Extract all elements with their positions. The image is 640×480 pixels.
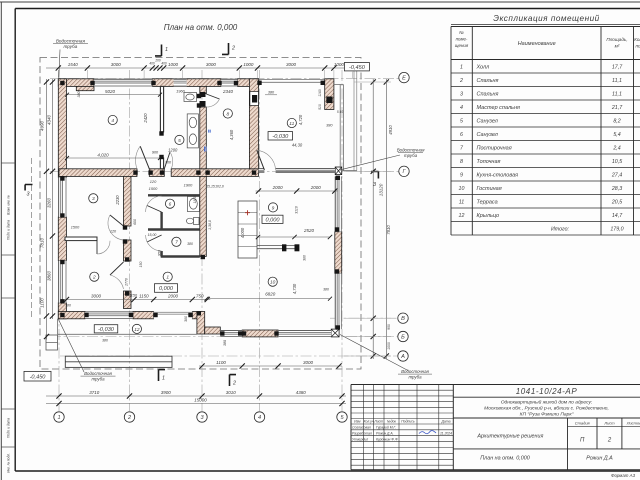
- svg-text:3000: 3000: [91, 294, 102, 299]
- svg-text:5020: 5020: [105, 89, 116, 94]
- window right wall lower: [335, 273, 342, 329]
- svg-text:Подпись: Подпись: [401, 420, 415, 424]
- svg-text:380: 380: [187, 242, 193, 246]
- wall axis 3 upper (room5/room8): [200, 86, 207, 168]
- svg-text:2770: 2770: [125, 278, 129, 287]
- svg-text:950: 950: [158, 250, 162, 256]
- svg-text:по: по: [635, 44, 640, 49]
- svg-text:380: 380: [326, 124, 333, 128]
- axis circles Е Г В Б А: [398, 72, 409, 361]
- svg-text:3010: 3010: [226, 390, 237, 395]
- svg-text:Терраса: Терраса: [477, 200, 498, 206]
- svg-text:4340: 4340: [47, 114, 52, 125]
- exterior wall bottom B, segment 3: [192, 312, 197, 319]
- svg-text:3000: 3000: [303, 360, 314, 365]
- svg-text:4,020: 4,020: [97, 153, 109, 158]
- door room4 at Г wall: [136, 146, 150, 169]
- corner post axis 5/Б: [331, 329, 339, 337]
- svg-text:1160: 1160: [318, 89, 322, 96]
- svg-text:1200: 1200: [168, 148, 178, 153]
- svg-text:20,5: 20,5: [611, 200, 622, 206]
- svg-text:Дата: Дата: [441, 420, 451, 424]
- svg-text:11,1: 11,1: [612, 78, 622, 84]
- svg-text:-0,450: -0,450: [349, 65, 366, 71]
- svg-text:9: 9: [272, 205, 275, 211]
- svg-text:труба: труба: [404, 153, 418, 158]
- svg-text:380: 380: [184, 316, 188, 322]
- svg-text:120: 120: [150, 179, 157, 184]
- section mark 3 left: [25, 185, 33, 198]
- svg-text:2340: 2340: [222, 89, 234, 94]
- bottom overall dimension chain: [46, 398, 346, 407]
- axis circles 1-5: [54, 412, 347, 422]
- svg-text:14,7: 14,7: [612, 213, 623, 219]
- svg-text:План на отм. 0,000: План на отм. 0,000: [164, 23, 238, 32]
- svg-text:Архитектурные решения: Архитектурные решения: [476, 434, 543, 440]
- svg-text:труба: труба: [64, 44, 78, 49]
- kitchen dimension chain: [256, 185, 338, 193]
- svg-text:5,4: 5,4: [613, 132, 620, 138]
- room6 toilet: [186, 218, 199, 225]
- svg-text:5 40: 5 40: [337, 110, 343, 114]
- svg-text:11: 11: [289, 121, 294, 127]
- level mark -0,030 terrace: [268, 132, 293, 140]
- svg-text:2: 2: [607, 438, 612, 444]
- svg-text:380: 380: [303, 255, 307, 261]
- exterior wall top, segment left: [58, 79, 94, 91]
- label водосточная труба top left: [53, 39, 88, 78]
- svg-text:1000: 1000: [168, 62, 179, 67]
- svg-text:Санузел: Санузел: [477, 132, 498, 138]
- wall axis 3 lower (hall side): [200, 176, 207, 256]
- level mark -0,450 top right: [344, 63, 369, 71]
- section mark 1 bottom: [159, 370, 166, 382]
- svg-text:12: 12: [134, 327, 140, 333]
- svg-text:3110: 3110: [295, 206, 299, 214]
- right dimension chain inner: [371, 79, 393, 359]
- svg-text:№док: №док: [387, 420, 396, 424]
- svg-text:2,4: 2,4: [612, 146, 620, 152]
- svg-text:2: 2: [459, 78, 463, 84]
- svg-text:6820: 6820: [265, 292, 276, 297]
- svg-text:21,7: 21,7: [611, 105, 623, 111]
- exterior wall bottom Б, segment left: [242, 330, 278, 337]
- thick wall room8/terrace: [249, 79, 258, 169]
- exterior wall left, middle segment: [58, 217, 66, 261]
- svg-text:4,720: 4,720: [298, 114, 303, 125]
- svg-text:3900: 3900: [161, 390, 172, 395]
- section mark 2 top: [222, 43, 235, 55]
- svg-text:380: 380: [268, 91, 275, 95]
- svg-text:Подп. и дата: Подп. и дата: [7, 220, 11, 240]
- exterior wall left, upper segment: [58, 79, 66, 178]
- top dimension chain: [46, 59, 356, 71]
- wall jamb squares: [60, 81, 340, 336]
- svg-text:1000: 1000: [334, 62, 345, 67]
- svg-text:1: 1: [57, 415, 60, 421]
- svg-text:Разработал: Разработал: [352, 432, 372, 436]
- svg-text:П: П: [580, 438, 585, 444]
- svg-text:-0,450: -0,450: [30, 374, 47, 380]
- flue box in thick wall: [250, 92, 259, 106]
- svg-text:4,000: 4,000: [240, 227, 245, 238]
- svg-text:Одноквартирный жилой дом по ад: Одноквартирный жилой дом по адресу:: [501, 398, 593, 405]
- svg-text:9: 9: [460, 173, 463, 179]
- kitchen stub dimension line: [256, 235, 332, 239]
- svg-text:900: 900: [152, 151, 159, 155]
- svg-text:Утвердил: Утвердил: [352, 437, 368, 441]
- terrace door leaf: [257, 150, 276, 170]
- label водосточная труба right: [341, 147, 426, 170]
- svg-text:Лист: Лист: [603, 420, 615, 425]
- svg-text:400: 400: [149, 62, 155, 66]
- svg-text:Площадь,: Площадь,: [606, 37, 627, 42]
- svg-text:Холл: Холл: [476, 65, 490, 71]
- svg-text:Водосточная: Водосточная: [84, 371, 112, 376]
- svg-text:1: 1: [166, 275, 169, 281]
- svg-text:4,730: 4,730: [292, 283, 297, 294]
- terrace glass wall at Г: [259, 168, 336, 172]
- svg-text:13120: 13120: [379, 183, 384, 196]
- left outer dimension chain: [40, 79, 50, 340]
- svg-text:6: 6: [169, 202, 172, 208]
- terrace edge lines: [259, 71, 357, 171]
- porch right wall: [197, 312, 220, 335]
- svg-text:2000: 2000: [310, 185, 322, 190]
- svg-text:7: 7: [175, 240, 178, 246]
- svg-text:1540: 1540: [68, 62, 79, 67]
- drawing title: [164, 23, 238, 32]
- extension lines right: [344, 82, 391, 356]
- svg-text:Согласовал: Согласовал: [352, 426, 371, 430]
- extra hall dimension texts: [65, 184, 224, 342]
- svg-text:Постирочная: Постирочная: [477, 146, 512, 152]
- svg-text:4380: 4380: [296, 390, 307, 395]
- svg-text:Мастер спальня: Мастер спальня: [477, 105, 520, 111]
- interior dimension chain rooms 1-2: [64, 294, 211, 303]
- svg-text:1100: 1100: [40, 298, 45, 308]
- cooktop cross red: [245, 210, 250, 215]
- porch outline: [57, 319, 197, 335]
- kitchen counter line: [257, 244, 299, 251]
- svg-text:Стадия: Стадия: [575, 420, 591, 425]
- exterior wall bottom B, segment 1: [58, 312, 85, 319]
- svg-text:102,0: 102,0: [215, 184, 224, 188]
- interior dimension texts: [65, 88, 332, 346]
- svg-text:380: 380: [323, 288, 329, 292]
- entrance door opening: [154, 312, 193, 319]
- level mark -0,030 porch: [94, 325, 118, 333]
- svg-text:Лист: Лист: [373, 420, 383, 424]
- svg-text:Е: Е: [402, 76, 406, 82]
- svg-text:18,30: 18,30: [193, 195, 197, 204]
- svg-text:5: 5: [460, 119, 463, 125]
- svg-text:3: 3: [460, 92, 463, 98]
- svg-text:2230: 2230: [115, 195, 120, 206]
- svg-text:2: 2: [232, 381, 236, 387]
- svg-text:28,3: 28,3: [611, 186, 622, 192]
- svg-text:3: 3: [27, 192, 30, 198]
- svg-text:3710: 3710: [89, 390, 100, 395]
- label водосточная труба bottom left: [59, 320, 116, 382]
- door room2: [97, 241, 110, 254]
- svg-text:1000: 1000: [243, 62, 254, 67]
- svg-text:Курочкин Ф.Ф: Курочкин Ф.Ф: [376, 437, 398, 441]
- svg-text:Кол: Кол: [634, 37, 640, 42]
- opening top wall room5: [174, 79, 187, 87]
- exterior wall top, segment right: [238, 79, 259, 87]
- canopy dashed line left: [31, 158, 33, 320]
- svg-text:380: 380: [77, 92, 81, 98]
- level mark -0,450 left: [24, 371, 51, 381]
- exterior wall bottom B, segment 2: [133, 312, 154, 319]
- svg-text:10: 10: [459, 186, 465, 192]
- svg-text:В: В: [401, 316, 405, 322]
- svg-text:5: 5: [178, 138, 181, 144]
- bottom porch dimension chain: [199, 360, 342, 368]
- door room3 at axis2 wall: [108, 215, 124, 240]
- svg-text:510: 510: [318, 104, 322, 110]
- partition room2/room3: [65, 237, 97, 241]
- svg-text:3860: 3860: [47, 270, 52, 281]
- section mark 3 right: [371, 172, 379, 189]
- svg-text:Формат А3: Формат А3: [611, 473, 636, 478]
- door room7: [146, 235, 162, 251]
- svg-text:Водосточная: Водосточная: [401, 369, 429, 374]
- level mark 0,000 kitchen: [262, 215, 283, 223]
- window bottom room2: [85, 312, 133, 319]
- svg-text:№: №: [459, 30, 464, 35]
- svg-text:4910: 4910: [388, 125, 393, 135]
- svg-text:600: 600: [133, 219, 137, 225]
- svg-text:1900: 1900: [184, 183, 193, 188]
- svg-text:10: 10: [270, 280, 276, 286]
- interior wall axis Г, middle: [149, 169, 164, 177]
- svg-text:12: 12: [459, 213, 465, 219]
- svg-text:Кухня-столовая: Кухня-столовая: [477, 173, 519, 179]
- title block: [351, 385, 640, 478]
- section mark 1 top: [155, 45, 168, 57]
- svg-text:380: 380: [223, 340, 227, 346]
- svg-text:2: 2: [231, 46, 235, 52]
- left attribute column: [1, 163, 15, 473]
- room number labels: [89, 109, 297, 334]
- door room6: [146, 196, 162, 212]
- svg-text:7810: 7810: [40, 237, 45, 248]
- svg-text:3260: 3260: [47, 197, 52, 208]
- svg-text:Водосточная: Водосточная: [397, 147, 425, 152]
- svg-text:11: 11: [459, 200, 465, 206]
- svg-text:Наименование: Наименование: [518, 41, 556, 47]
- svg-text:3: 3: [92, 196, 95, 202]
- svg-text:4990: 4990: [40, 120, 45, 131]
- window right wall upper: [335, 176, 342, 231]
- svg-text:400: 400: [161, 62, 167, 66]
- window left room2: [58, 261, 66, 303]
- wall axis 2, lower bottom segment: [124, 291, 132, 309]
- svg-text:1150: 1150: [139, 294, 149, 299]
- svg-text:8: 8: [460, 159, 463, 165]
- svg-text:44,30: 44,30: [292, 142, 303, 147]
- room6 sink: [187, 197, 199, 212]
- room5 toilet: [184, 93, 197, 102]
- svg-text:1100: 1100: [216, 360, 226, 365]
- extension lines top: [58, 70, 352, 78]
- svg-text:Взам. инв. №: Взам. инв. №: [7, 195, 11, 215]
- svg-text:2: 2: [92, 275, 96, 281]
- svg-text:1: 1: [460, 65, 463, 71]
- svg-text:200: 200: [154, 59, 161, 63]
- svg-text:2000: 2000: [167, 294, 179, 299]
- svg-text:1150: 1150: [129, 294, 138, 298]
- svg-text:Московская обл., Рузский р-н,: Московская обл., Рузский р-н, вблизи с. …: [484, 404, 609, 411]
- svg-text:-0,030: -0,030: [272, 134, 289, 140]
- svg-text:6: 6: [460, 132, 463, 138]
- svg-text:380: 380: [102, 339, 108, 343]
- svg-text:3000: 3000: [286, 62, 297, 67]
- door room5 at Г wall: [164, 152, 172, 169]
- section mark 2 bottom: [230, 375, 237, 387]
- room8 boiler jambs: [200, 92, 206, 107]
- svg-text:1500: 1500: [149, 186, 158, 191]
- terrace pier top right: [325, 79, 334, 110]
- table экспликация помещений: [451, 14, 640, 235]
- svg-text:15,00: 15,00: [148, 233, 157, 237]
- svg-text:Инв. № подл.: Инв. № подл.: [7, 453, 11, 473]
- svg-text:1,38,0: 1,38,0: [208, 220, 212, 230]
- svg-text:120: 120: [110, 230, 117, 234]
- porch steps: [65, 356, 172, 367]
- svg-text:1000: 1000: [387, 342, 391, 350]
- svg-text:труба: труба: [408, 374, 422, 379]
- label водосточная труба bottom right: [340, 335, 432, 380]
- svg-text:1960: 1960: [176, 88, 185, 93]
- svg-text:Гостиная: Гостиная: [477, 186, 502, 192]
- svg-text:10,5: 10,5: [612, 159, 622, 165]
- svg-text:Изм: Изм: [354, 420, 361, 424]
- svg-text:150: 150: [139, 262, 143, 268]
- svg-text:4: 4: [460, 105, 463, 111]
- svg-text:2000: 2000: [272, 185, 284, 190]
- svg-text:Спальня: Спальня: [477, 78, 499, 84]
- porch corner pilaster: [46, 335, 58, 350]
- svg-text:Рожин Д.А: Рожин Д.А: [586, 456, 613, 462]
- svg-text:Санузел: Санузел: [477, 119, 498, 125]
- svg-text:План на отм. 0,000: План на отм. 0,000: [480, 456, 529, 462]
- svg-text:КП "Руза Фэмили Парк": КП "Руза Фэмили Парк": [520, 411, 574, 417]
- window Б wall left: [220, 330, 242, 337]
- svg-text:щения: щения: [455, 43, 469, 48]
- interior wall axis Г, right: [171, 169, 258, 177]
- blue revision marks: [205, 130, 211, 152]
- svg-text:Рожин Д.А.: Рожин Д.А.: [376, 432, 394, 436]
- svg-text:15,15: 15,15: [206, 184, 215, 188]
- svg-text:0,000: 0,000: [159, 286, 174, 292]
- wall axis 2, lower middle segment: [124, 240, 132, 261]
- svg-text:1041-10/24-АР: 1041-10/24-АР: [516, 387, 578, 396]
- svg-text:Крыльцо: Крыльцо: [477, 213, 500, 219]
- svg-text:27,4: 27,4: [611, 173, 622, 179]
- svg-text:1: 1: [165, 47, 168, 53]
- svg-text:Водосточная: Водосточная: [56, 39, 86, 44]
- left inner dimension chain: [47, 79, 56, 319]
- svg-text:1500: 1500: [71, 226, 80, 230]
- svg-text:0,000: 0,000: [266, 217, 281, 223]
- window Б wall right: [278, 330, 331, 337]
- corner post axis 5/Г: [335, 167, 342, 175]
- svg-text:Спальня: Спальня: [477, 92, 499, 98]
- door room2 from hall: [110, 262, 124, 289]
- terrace pier dim texts: [265, 89, 343, 127]
- kitchen island: [238, 201, 257, 258]
- svg-text:700: 700: [165, 161, 172, 165]
- svg-text:17,7: 17,7: [612, 65, 623, 71]
- exterior wall left, lower segment: [58, 303, 66, 319]
- room5 vanity with two basins: [187, 114, 198, 148]
- svg-text:2420: 2420: [143, 113, 148, 124]
- wall axis 2, upper segment: [124, 176, 132, 226]
- svg-text:Экспликация помещений: Экспликация помещений: [493, 14, 599, 23]
- svg-text:15000: 15000: [194, 398, 207, 403]
- window top room4: [94, 79, 152, 87]
- partition walls rooms 6 and 7: [148, 195, 200, 256]
- svg-text:Б: Б: [401, 334, 405, 340]
- partition room4/room5: [160, 86, 163, 168]
- window left room3: [58, 177, 66, 217]
- svg-text:труба: труба: [91, 376, 105, 381]
- svg-text:Листов: Листов: [626, 420, 640, 425]
- living room right wall: [335, 232, 342, 274]
- grid axes dash-dot: [50, 70, 399, 411]
- svg-text:4: 4: [111, 118, 114, 124]
- svg-text:1: 1: [162, 376, 165, 382]
- interior wall axis Г, left of hall door: [59, 169, 137, 177]
- svg-text:3000: 3000: [111, 62, 122, 67]
- svg-text:3: 3: [373, 182, 376, 188]
- window top room8: [221, 79, 238, 87]
- svg-text:Кол.уч: Кол.уч: [364, 420, 374, 424]
- svg-text:м²: м²: [615, 44, 620, 49]
- svg-text:2520: 2520: [303, 228, 315, 233]
- svg-text:7810: 7810: [386, 225, 391, 235]
- svg-text:4,360: 4,360: [229, 129, 234, 140]
- svg-text:380: 380: [65, 304, 71, 308]
- svg-text:поме-: поме-: [456, 37, 468, 42]
- roof overhang dashed outline: [40, 58, 361, 370]
- svg-text:750: 750: [196, 294, 204, 299]
- svg-text:Итого:: Итого:: [551, 227, 570, 233]
- svg-text:Подп. и дата: Подп. и дата: [7, 418, 11, 438]
- svg-text:Гурарий М.Г.: Гурарий М.Г.: [376, 426, 397, 430]
- door room8 at axis3 wall: [206, 94, 219, 107]
- svg-text:11,1: 11,1: [612, 92, 622, 98]
- svg-text:8,2: 8,2: [613, 119, 620, 125]
- svg-text:3000: 3000: [206, 62, 217, 67]
- svg-text:8: 8: [226, 111, 229, 117]
- svg-text:-0,030: -0,030: [98, 327, 115, 333]
- svg-text:179,0: 179,0: [610, 227, 623, 233]
- svg-text:950: 950: [387, 324, 391, 330]
- bottom axis dimension chain: [46, 390, 346, 399]
- level mark 0,000 hall: [155, 284, 178, 293]
- right dimension chain outer: [379, 79, 389, 359]
- svg-text:11.2024: 11.2024: [440, 432, 452, 436]
- svg-text:Топочная: Топочная: [477, 159, 501, 165]
- svg-text:А: А: [400, 354, 405, 360]
- svg-text:4: 4: [258, 415, 261, 421]
- exterior wall top, segment middle: [152, 79, 221, 87]
